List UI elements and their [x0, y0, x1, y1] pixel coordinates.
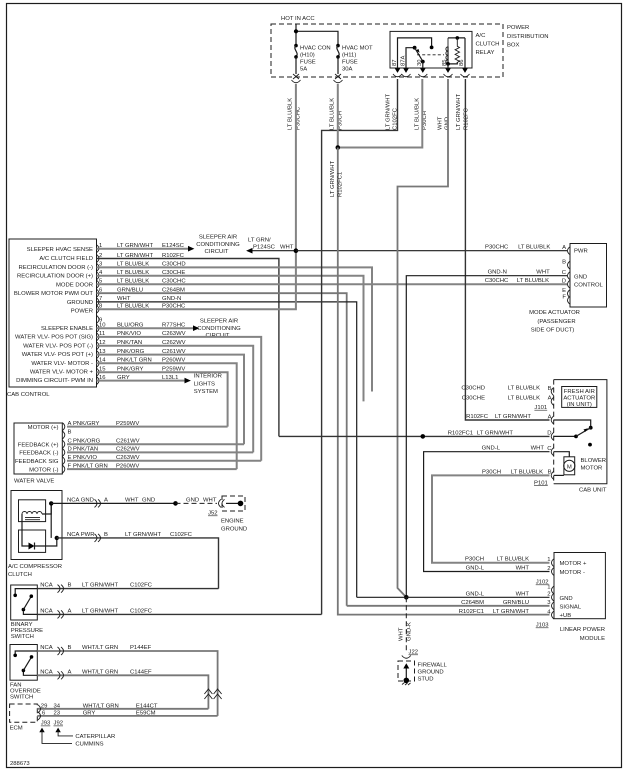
binary pressure switch contacts [15, 589, 37, 594]
wire E144CT ECM 29/34 [37, 708, 208, 710]
wire C264BM to LPM pin3 [347, 605, 550, 607]
svg-text:288673: 288673 [10, 761, 30, 767]
svg-text:LT BLU/BLK: LT BLU/BLK [414, 98, 420, 130]
svg-text:GROUND: GROUND [67, 300, 93, 306]
LPM pin cups [552, 559, 555, 619]
svg-text:LT BLU/BLK: LT BLU/BLK [497, 557, 529, 563]
svg-text:WATER VALVE: WATER VALVE [14, 479, 54, 485]
svg-text:SWITCH: SWITCH [10, 694, 33, 700]
wire GND-N pin7 [97, 302, 357, 597]
svg-text:C102FC: C102FC [130, 609, 153, 615]
relay actuation link dashed [417, 54, 444, 56]
wire C102FC compressor pin B [57, 538, 219, 589]
wire P30CH cab unit B to LPM 1 [432, 475, 550, 562]
cab unit pin cups [551, 388, 554, 480]
svg-text:LT GRN/WHT: LT GRN/WHT [477, 430, 514, 436]
wire fuse H11 lead [337, 57, 339, 74]
connector water valve box [14, 423, 62, 474]
engine ground [222, 496, 245, 511]
svg-text:E59CM: E59CM [136, 711, 156, 717]
component binary pressure switch box [11, 585, 38, 620]
wire C262WV row D [67, 451, 253, 453]
svg-text:GND: GND [186, 497, 199, 503]
legend caterpillar [55, 728, 60, 733]
svg-text:P101: P101 [534, 480, 548, 486]
svg-text:B: B [68, 583, 72, 589]
wire C264BM pin6 [97, 293, 347, 606]
svg-text:FIREWALL: FIREWALL [418, 663, 448, 669]
svg-text:C102FC: C102FC [170, 532, 193, 538]
svg-text:J52: J52 [208, 511, 218, 517]
svg-text:WHT: WHT [125, 497, 139, 503]
svg-text:WHT: WHT [399, 627, 405, 641]
svg-text:FRESH AIR: FRESH AIR [564, 389, 595, 395]
svg-text:HVAC CON: HVAC CON [300, 46, 331, 52]
svg-text:B: B [562, 259, 566, 265]
svg-text:C30CHE: C30CHE [462, 395, 485, 401]
svg-text:5A: 5A [300, 67, 307, 73]
svg-text:DISTRIBUTION: DISTRIBUTION [507, 34, 549, 40]
wire C102FC from relay 87 [322, 79, 398, 614]
svg-text:GND: GND [574, 275, 587, 281]
wire C263WV row E [67, 460, 261, 462]
connector symbol fuse H10 [292, 74, 301, 83]
svg-text:INTERIOR: INTERIOR [194, 374, 222, 380]
compressor clutch coil [19, 500, 46, 522]
fuse HVAC MOT (H11) 30A [336, 44, 340, 48]
svg-text:P124SC: P124SC [253, 245, 276, 251]
wire P30CHC from fuse [295, 84, 297, 251]
wire E124SC pin1 [97, 248, 189, 250]
svg-text:GND-L: GND-L [482, 446, 501, 452]
wire C262WV pin12 [97, 346, 254, 453]
relay internal bus 87 [398, 38, 432, 68]
relay contact 30 [421, 60, 425, 64]
wire C261WV row C [67, 443, 244, 445]
relay pin 87 connector [395, 68, 401, 73]
svg-text:HVAC MOT: HVAC MOT [342, 46, 373, 52]
wire C261WV pin13 [97, 355, 245, 445]
svg-text:J92: J92 [54, 721, 64, 727]
svg-text:LT GRN/: LT GRN/ [248, 237, 271, 243]
svg-text:CLUTCH: CLUTCH [476, 42, 500, 48]
svg-text:WHT/LT GRN: WHT/LT GRN [83, 703, 119, 709]
svg-text:LT BLU/BLK: LT BLU/BLK [508, 395, 540, 401]
svg-text:ENGINE: ENGINE [221, 519, 244, 525]
svg-text:(IN UNIT): (IN UNIT) [567, 402, 592, 408]
svg-text:D: D [562, 279, 566, 285]
svg-text:MOTOR (-): MOTOR (-) [29, 467, 58, 473]
svg-text:J101: J101 [534, 405, 547, 411]
node R102FC1 splice [421, 434, 426, 439]
svg-text:NCA: NCA [40, 583, 53, 589]
svg-text:LT BLU/BLK: LT BLU/BLK [330, 98, 336, 130]
svg-text:FEEDBACK (+): FEEDBACK (+) [18, 443, 59, 449]
svg-text:SLEEPER AIR: SLEEPER AIR [199, 234, 237, 240]
wire C144EF fan pin A [37, 675, 208, 709]
node GND junction [404, 595, 409, 600]
relay pin 85 connector [445, 68, 451, 73]
wire R102FC1 to cab unit D [279, 435, 550, 437]
inline connector on P144EF [214, 689, 222, 699]
component linear power module box [554, 553, 605, 619]
svg-text:J93: J93 [41, 721, 51, 727]
wire P124SC to sleeper [252, 250, 296, 252]
svg-text:E: E [562, 288, 566, 294]
relay coil L1 [446, 38, 448, 64]
wire C102FC binary pin A [37, 613, 321, 615]
svg-text:SIDE OF DUCT): SIDE OF DUCT) [531, 328, 575, 334]
svg-text:P30CH: P30CH [465, 557, 484, 563]
svg-text:NCA: NCA [40, 645, 53, 651]
wire P260WV row F [67, 468, 237, 470]
svg-text:CONTROL: CONTROL [574, 283, 604, 289]
svg-text:D: D [547, 431, 551, 437]
svg-text:WATER VLV- POS POT (+): WATER VLV- POS POT (+) [22, 352, 93, 358]
svg-text:P144EF: P144EF [130, 645, 152, 651]
svg-text:MOTOR +: MOTOR + [560, 561, 587, 567]
svg-text:GND-L: GND-L [466, 566, 485, 572]
wire L13L1 pin16 [97, 380, 185, 382]
svg-text:WHT: WHT [536, 270, 550, 276]
svg-text:LT BLU/BLK: LT BLU/BLK [288, 98, 294, 130]
svg-text:LT GRN/WHT: LT GRN/WHT [456, 93, 462, 130]
mode actuator pin letters [562, 245, 567, 301]
svg-text:(H11): (H11) [342, 53, 356, 59]
svg-text:CONDITIONING: CONDITIONING [196, 242, 240, 248]
svg-text:A: A [562, 245, 566, 251]
blower motor M1 [564, 457, 575, 475]
svg-text:34: 34 [54, 703, 61, 709]
wire GND-L cab unit C to LPM 2 [424, 452, 550, 572]
wire GND WHT dashed to engine ground [176, 502, 218, 504]
svg-text:FEEDBACK SIG: FEEDBACK SIG [15, 459, 59, 465]
svg-text:87A: 87A [400, 55, 406, 66]
water valve left labels [15, 425, 59, 473]
svg-text:29: 29 [41, 703, 48, 709]
water valve pin cups [62, 423, 65, 474]
svg-text:GND-L: GND-L [466, 591, 485, 597]
svg-text:86: 86 [459, 59, 465, 66]
fan override switch contacts [15, 651, 37, 654]
wire C30CHE pin4 [97, 276, 364, 402]
svg-text:SLEEPER HVAC SENSE: SLEEPER HVAC SENSE [27, 247, 93, 253]
firewall ground stud [398, 661, 415, 681]
svg-text:WHT/LT GRN: WHT/LT GRN [82, 669, 118, 675]
wire P260WV pin14 [97, 363, 237, 469]
relay pin 86 connector [462, 68, 468, 73]
svg-text:NCA PWR: NCA PWR [67, 532, 95, 538]
power distribution box [271, 24, 503, 77]
svg-text:LT GRN/WHT: LT GRN/WHT [82, 583, 119, 589]
svg-text:B: B [104, 532, 108, 538]
wire P30CHC pin8 [97, 251, 296, 310]
svg-text:A/C COMPRESSOR: A/C COMPRESSOR [8, 564, 62, 570]
relay coil bus [448, 37, 465, 39]
node P30CH junction [336, 145, 341, 150]
component fan override switch box [10, 645, 37, 681]
svg-text:P30CHC: P30CHC [485, 245, 509, 251]
svg-text:CUMMINS: CUMMINS [75, 741, 103, 747]
svg-text:CAB CONTROL: CAB CONTROL [7, 392, 50, 398]
svg-text:ECM: ECM [10, 726, 23, 732]
svg-text:23: 23 [54, 711, 61, 717]
svg-text:MODULE: MODULE [580, 636, 605, 642]
wire C263WV pin11 [97, 337, 262, 461]
cab control pin numbers and wire labels [99, 243, 186, 381]
svg-text:WHT/LT GRN: WHT/LT GRN [82, 645, 118, 651]
svg-text:GND: GND [142, 497, 155, 503]
wire E59CM ECM 6/23 [37, 715, 217, 717]
wire C30CHC pin5 to mode actuator D [97, 283, 568, 285]
svg-text:GND: GND [560, 596, 573, 602]
relay pin 30 connector [420, 68, 426, 73]
component mode actuator box [570, 244, 607, 308]
svg-text:POWER: POWER [71, 309, 93, 315]
connector symbol fuse H11 [334, 74, 343, 83]
legend cummins [39, 728, 44, 733]
wire P30CH from fuse to relay 30 [337, 84, 339, 148]
component cab unit box [554, 380, 607, 484]
svg-text:LT GRN/WHT: LT GRN/WHT [330, 160, 336, 197]
svg-text:NCA GND: NCA GND [67, 497, 94, 503]
svg-text:STUD: STUD [418, 677, 434, 683]
svg-text:GROUND: GROUND [221, 527, 247, 533]
svg-text:MODE ACTUATOR: MODE ACTUATOR [529, 310, 580, 316]
svg-text:LT GRN/WHT: LT GRN/WHT [493, 609, 530, 615]
svg-text:WHT: WHT [531, 446, 545, 452]
svg-text:1: 1 [547, 557, 550, 563]
svg-text:BLOWER: BLOWER [581, 458, 607, 464]
node feed junction [294, 29, 298, 33]
cab unit pin letters [547, 386, 552, 476]
svg-text:HOT IN ACC: HOT IN ACC [281, 16, 315, 22]
svg-text:FUSE: FUSE [342, 60, 358, 66]
wire GND-K dashed to stud [405, 597, 407, 652]
svg-text:SIGNAL: SIGNAL [560, 604, 582, 610]
wire P30CHC to mode actuator A [296, 250, 567, 252]
wire WHT GND compressor pin A [51, 502, 175, 504]
svg-text:RELAY: RELAY [476, 50, 495, 56]
svg-text:R102FC1: R102FC1 [337, 172, 343, 197]
svg-text:LIGHTS: LIGHTS [194, 381, 215, 387]
mode actuator pin cups [568, 247, 571, 305]
svg-text:J102: J102 [536, 580, 549, 586]
relay switch blade [415, 48, 423, 62]
svg-text:GND-N: GND-N [488, 270, 507, 276]
wire R77SHC pin10 [97, 327, 194, 329]
svg-text:B: B [68, 429, 72, 435]
svg-text:WATER VLV- POS POT (SIG): WATER VLV- POS POT (SIG) [15, 335, 93, 341]
svg-text:WHT: WHT [203, 497, 217, 503]
svg-text:BOX: BOX [507, 43, 520, 49]
fuse HVAC CON (H10) 5A [294, 44, 298, 48]
wire GND-N to mode actuator C [406, 276, 567, 598]
svg-text:FEEDBACK (-): FEEDBACK (-) [19, 451, 58, 457]
svg-text:+UB: +UB [560, 613, 572, 619]
relay pin 87A connector [403, 68, 409, 73]
relay resistor R1 [455, 38, 459, 63]
svg-text:WHT: WHT [516, 591, 530, 597]
svg-text:RECIRCULATION DOOR (-): RECIRCULATION DOOR (-) [18, 265, 93, 271]
svg-text:PWR: PWR [574, 249, 588, 255]
svg-text:E144CT: E144CT [136, 703, 158, 709]
svg-text:A: A [104, 497, 108, 503]
relay pin 86 stub [464, 38, 466, 68]
component fresh air actuator box [562, 387, 597, 408]
svg-text:NCA: NCA [40, 609, 53, 615]
svg-text:C264BM: C264BM [461, 600, 484, 606]
relay pin 30 stub [422, 62, 424, 68]
svg-text:A: A [68, 669, 72, 675]
svg-text:A: A [548, 414, 552, 420]
wire P259WV row A [67, 426, 228, 428]
svg-text:WHT: WHT [280, 245, 294, 251]
svg-text:WATER VLV- POS POT (-): WATER VLV- POS POT (-) [23, 343, 93, 349]
relay switch pole [413, 46, 417, 50]
svg-text:R102FC: R102FC [463, 107, 469, 130]
svg-text:(PASSENGER: (PASSENGER [537, 319, 575, 325]
wire WHT GND from relay 85 [398, 79, 449, 597]
svg-text:A/C CLUTCH FIELD: A/C CLUTCH FIELD [39, 256, 93, 262]
svg-text:FUSE: FUSE [300, 60, 316, 66]
svg-text:WHT: WHT [516, 566, 530, 572]
svg-text:A/C: A/C [476, 33, 487, 39]
wire P259WV pin15 [97, 372, 228, 426]
svg-text:SLEEPER AIR: SLEEPER AIR [200, 318, 238, 324]
LPM pin numbers [547, 557, 551, 615]
svg-text:LT BLU/BLK: LT BLU/BLK [518, 245, 550, 251]
svg-text:LT GRN/WHT: LT GRN/WHT [386, 93, 392, 130]
component ECM dashed box [10, 704, 38, 722]
component A/C compressor clutch box [11, 491, 62, 560]
svg-text:CIRCUIT: CIRCUIT [205, 249, 229, 255]
wire P144EF fan pin B [37, 651, 217, 716]
svg-text:CLUTCH: CLUTCH [8, 572, 32, 578]
svg-text:WATER VLV- MOTOR -: WATER VLV- MOTOR - [31, 361, 93, 367]
svg-text:C30CHC: C30CHC [485, 278, 509, 284]
svg-text:C144EF: C144EF [130, 669, 152, 675]
svg-text:CAB UNIT: CAB UNIT [579, 488, 607, 494]
svg-text:F: F [562, 295, 566, 301]
wire ACC feed [295, 24, 297, 45]
compressor internal wiring [42, 503, 51, 514]
svg-text:GRN/BLU: GRN/BLU [503, 600, 529, 606]
wire C102FC binary pin B [37, 588, 218, 590]
svg-text:30A: 30A [342, 67, 353, 73]
svg-text:R102FC: R102FC [466, 414, 489, 420]
svg-text:RECIRCULATION DOOR (+): RECIRCULATION DOOR (+) [17, 274, 93, 280]
svg-text:2: 2 [547, 566, 550, 572]
relay coil bottom junction [448, 47, 457, 64]
svg-text:MOTOR -: MOTOR - [560, 570, 585, 576]
svg-text:A: A [548, 396, 552, 402]
wire R102FC pin2 [97, 259, 279, 437]
inline connector on C144EF [204, 689, 212, 699]
cab unit motor wiring [554, 452, 570, 457]
svg-text:POWER: POWER [507, 25, 529, 31]
svg-text:B: B [548, 470, 552, 476]
relay contact 87 [430, 46, 434, 50]
svg-text:J22: J22 [409, 650, 419, 656]
svg-text:SLEEPER ENABLE: SLEEPER ENABLE [41, 326, 93, 332]
svg-text:P30CH: P30CH [482, 469, 501, 475]
svg-text:GROUND: GROUND [418, 670, 444, 676]
svg-text:WHT: WHT [437, 116, 443, 130]
wire C30CHD pin3 [97, 267, 373, 391]
svg-text:30: 30 [417, 59, 423, 66]
cab control pin cups [97, 245, 100, 385]
svg-text:85: 85 [442, 59, 448, 66]
svg-text:CONDITIONING: CONDITIONING [197, 326, 241, 332]
svg-text:DIMMING CIRCUIT- PWM IN: DIMMING CIRCUIT- PWM IN [16, 378, 93, 384]
node P30CHC junction [294, 248, 299, 253]
svg-text:CATERPILLAR: CATERPILLAR [75, 734, 115, 740]
svg-text:GRY: GRY [83, 711, 96, 717]
svg-text:LT BLU/BLK: LT BLU/BLK [511, 469, 543, 475]
svg-text:SYSTEM: SYSTEM [194, 389, 218, 395]
svg-text:C102FC: C102FC [130, 583, 153, 589]
svg-text:2: 2 [547, 592, 550, 598]
svg-text:LT GRN/WHT: LT GRN/WHT [82, 609, 119, 615]
connector J2 cab control box [9, 239, 97, 387]
svg-text:SWITCH: SWITCH [11, 634, 34, 640]
water valve pin labels [68, 421, 140, 470]
svg-text:(H10): (H10) [300, 53, 315, 59]
svg-text:ACTUATOR: ACTUATOR [563, 395, 595, 401]
svg-text:LT BLU/BLK: LT BLU/BLK [517, 278, 549, 284]
svg-text:MOTOR: MOTOR [581, 465, 603, 471]
svg-text:B: B [548, 386, 552, 392]
svg-text:LT GRN/WHT: LT GRN/WHT [125, 532, 162, 538]
svg-text:R102FC1: R102FC1 [459, 609, 484, 615]
svg-text:MODE DOOR: MODE DOOR [56, 282, 93, 288]
svg-text:C30CHD: C30CHD [461, 386, 485, 392]
compressor clutch diode D1 [19, 530, 46, 552]
svg-text:R102FC1: R102FC1 [448, 430, 473, 436]
node engine ground splice [173, 501, 178, 506]
wire fuse H10 lead [295, 57, 297, 74]
svg-text:LT GRN/WHT: LT GRN/WHT [495, 414, 532, 420]
svg-text:C: C [547, 446, 552, 452]
relay U1 A/C clutch relay box [390, 31, 472, 68]
wire GND-L to LPM pin2 [357, 596, 550, 598]
wire R102FC1 trunk [338, 148, 550, 615]
svg-text:M: M [567, 464, 572, 470]
svg-text:NCA: NCA [40, 669, 53, 675]
cab unit switch [554, 420, 591, 427]
svg-text:WATER VLV- MOTOR +: WATER VLV- MOTOR + [30, 370, 94, 376]
svg-text:C: C [562, 270, 567, 276]
svg-text:J103: J103 [536, 623, 549, 629]
svg-text:BLOWER MOTOR PWM OUT: BLOWER MOTOR PWM OUT [14, 291, 93, 297]
relay pin 87A stub [406, 48, 413, 68]
svg-text:87: 87 [392, 59, 398, 66]
svg-text:A: A [68, 609, 72, 615]
wire R102FC from relay 86 [465, 79, 549, 420]
svg-text:LINEAR POWER: LINEAR POWER [560, 627, 605, 633]
svg-text:GND-K: GND-K [407, 622, 413, 641]
svg-text:LT BLU/BLK: LT BLU/BLK [508, 386, 540, 392]
relay pin 85 stub [447, 64, 449, 68]
svg-text:B: B [68, 645, 72, 651]
svg-text:MOTOR (+): MOTOR (+) [28, 425, 59, 431]
